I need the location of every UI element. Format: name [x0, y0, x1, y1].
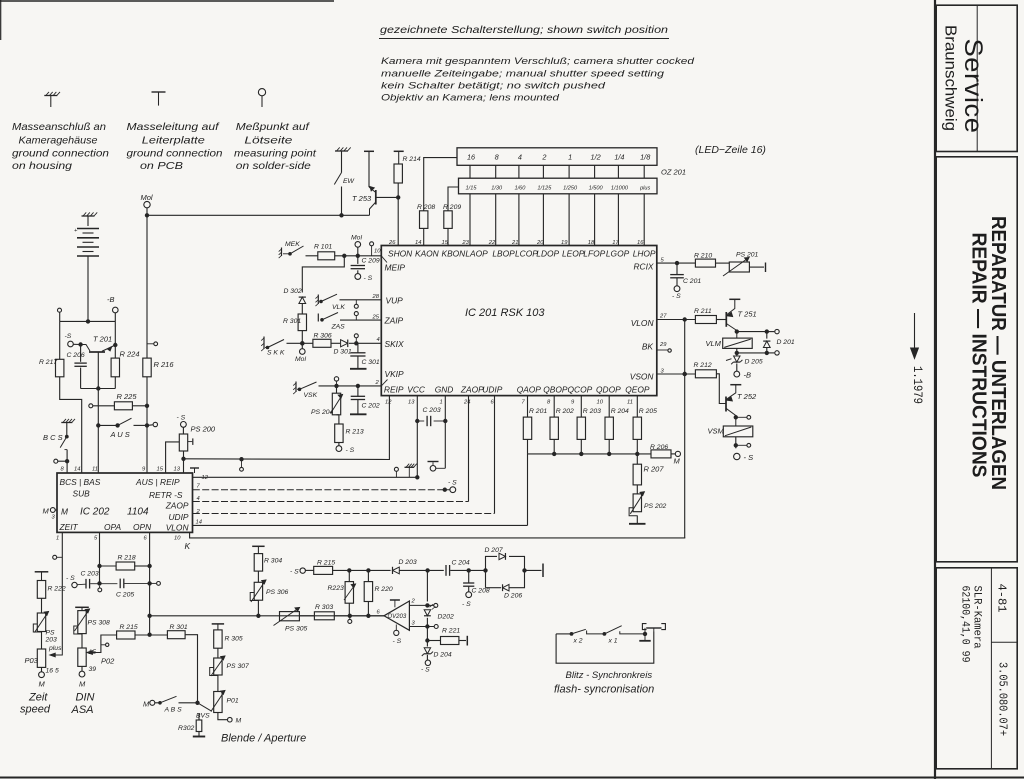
- svg-text:PS: PS: [46, 630, 56, 637]
- svg-text:- S: - S: [462, 601, 471, 608]
- row VLON pin14: [193, 524, 528, 526]
- svg-text:1: 1: [56, 536, 59, 542]
- test point R303 row: [349, 618, 351, 620]
- diode D302: [299, 297, 306, 303]
- terminal -S T201: [68, 341, 74, 347]
- terminal -S C201: [674, 286, 680, 292]
- op-amp pin3 stub: [409, 626, 434, 628]
- terminal -S row7: [450, 487, 456, 493]
- wire R215 to P02 wiper: [92, 635, 117, 653]
- svg-text:gezeichnete Schalterstellung;: gezeichnete Schalterstellung; shown swit…: [380, 24, 668, 36]
- wire PS200 left arm: [166, 442, 180, 473]
- svg-text:10: 10: [374, 249, 381, 255]
- svg-text:VSK: VSK: [304, 392, 318, 399]
- resistor R223: [348, 570, 350, 581]
- wire RCIX: [657, 262, 696, 264]
- svg-text:3.05.080.07+: 3.05.080.07+: [996, 662, 1009, 736]
- resistor R301 (A301): [298, 314, 306, 331]
- svg-text:M: M: [43, 507, 50, 516]
- svg-text:C 204: C 204: [452, 560, 470, 567]
- wire R 205 bottom: [636, 439, 638, 454]
- ground C301: [350, 368, 367, 370]
- capacitor C301: [357, 343, 359, 353]
- resistor R305: [214, 630, 222, 648]
- svg-text:6: 6: [377, 610, 381, 616]
- svg-text:VSON: VSON: [630, 372, 655, 382]
- svg-text:R 220: R 220: [375, 586, 393, 593]
- resistor R209: [444, 211, 452, 229]
- terminal -S R213: [338, 443, 340, 446]
- ground C202: [350, 413, 367, 415]
- svg-text:B C S: B C S: [43, 433, 63, 442]
- resistor R220: [367, 570, 369, 581]
- svg-text:QCOP: QCOP: [568, 385, 593, 395]
- test point VUP: [354, 304, 358, 308]
- svg-text:M: M: [674, 457, 681, 466]
- svg-text:4-81: 4-81: [995, 584, 1008, 613]
- resistor R101: [306, 255, 318, 257]
- node AUS junction: [97, 424, 100, 427]
- svg-text:2: 2: [375, 380, 380, 386]
- capacitor C203 vcc: [417, 420, 424, 422]
- svg-text:R 215: R 215: [317, 560, 335, 567]
- test point SKIX: [354, 334, 358, 338]
- wire R215-D203: [333, 569, 391, 571]
- potentiometer PS201: [729, 262, 749, 272]
- resistor R207: [636, 454, 638, 464]
- svg-text:2: 2: [411, 599, 416, 605]
- svg-text:P02: P02: [101, 657, 115, 666]
- svg-text:Masseleitung auf: Masseleitung auf: [127, 122, 220, 133]
- svg-text:D 301: D 301: [334, 349, 352, 356]
- IC U202 box IC 202 1104: [57, 473, 193, 532]
- terminal M P01: [228, 717, 233, 722]
- svg-text:1/1000: 1/1000: [611, 186, 629, 192]
- svg-text:OZ 201: OZ 201: [661, 168, 686, 177]
- svg-text:S K K: S K K: [267, 350, 285, 357]
- svg-text:LBOP: LBOP: [492, 249, 515, 259]
- wire T251 emitter node: [737, 331, 767, 333]
- wire ZAS to ZAIP: [340, 319, 381, 321]
- row K pin10: [190, 532, 686, 538]
- switch ABS: [159, 702, 162, 705]
- wire R214 to pin26: [397, 183, 399, 246]
- svg-text:C 205: C 205: [116, 592, 134, 599]
- svg-text:ground connection: ground connection: [127, 148, 223, 159]
- svg-text:R 208: R 208: [417, 204, 435, 211]
- wire D203-C204: [400, 569, 444, 571]
- svg-text:OV203: OV203: [388, 614, 407, 620]
- resistor R 202: [550, 417, 558, 439]
- svg-text:- S: - S: [177, 415, 186, 422]
- svg-text:LGOP: LGOP: [606, 249, 630, 259]
- wire QBOP column: [553, 396, 555, 418]
- svg-text:SKIX: SKIX: [385, 339, 404, 349]
- svg-text:Blitz - Synchronkreis: Blitz - Synchronkreis: [566, 670, 653, 681]
- svg-text:-B: -B: [744, 371, 752, 380]
- svg-text:Mol: Mol: [141, 193, 153, 202]
- svg-text:plus: plus: [48, 645, 62, 652]
- svg-text:Kameragehäuse: Kameragehäuse: [19, 135, 98, 146]
- wire R212 to T252: [716, 374, 726, 404]
- svg-text:27: 27: [659, 314, 667, 320]
- svg-text:PS 204: PS 204: [311, 409, 334, 416]
- wire D302 to R301: [301, 304, 303, 315]
- wire OPA column: [99, 532, 101, 583]
- svg-text:-B: -B: [107, 295, 115, 304]
- svg-text:R 222: R 222: [48, 586, 66, 593]
- resistor R302: [198, 714, 200, 721]
- svg-text:R 209: R 209: [443, 204, 461, 211]
- wire R 204 bottom: [608, 439, 610, 454]
- svg-text:AUS | REIP: AUS | REIP: [135, 477, 180, 487]
- svg-text:M: M: [61, 507, 68, 517]
- wire PS200 bottom: [183, 451, 185, 473]
- row mixer long: [150, 615, 384, 617]
- ground flash: [644, 634, 646, 640]
- svg-text:- S: - S: [290, 569, 299, 576]
- svg-text:T 251: T 251: [738, 310, 757, 319]
- svg-text:speed: speed: [20, 704, 51, 716]
- svg-text:VUP: VUP: [386, 296, 404, 306]
- svg-text:ZAIP: ZAIP: [384, 316, 404, 326]
- switch VLK: [317, 295, 319, 305]
- test point R216: [147, 343, 154, 345]
- svg-text:R 303: R 303: [315, 604, 333, 611]
- svg-text:7: 7: [197, 484, 201, 490]
- svg-text:C 203: C 203: [423, 407, 441, 414]
- wire R301 to SKIX: [301, 331, 303, 344]
- terminal BCS circle: [54, 459, 58, 463]
- svg-text:4: 4: [377, 337, 380, 343]
- wire VSON: [657, 373, 696, 375]
- potentiometer PS200: [179, 434, 187, 451]
- wire R211 to T251: [716, 319, 726, 321]
- LED box upper: [457, 148, 657, 166]
- svg-text:- S: - S: [66, 575, 75, 582]
- switch AUS: [116, 424, 119, 427]
- svg-text:PS 308: PS 308: [88, 620, 111, 627]
- terminal -S C208: [466, 592, 472, 598]
- svg-text:T 253: T 253: [352, 194, 372, 203]
- wire Mol column: [146, 215, 148, 358]
- svg-text:K: K: [185, 541, 191, 551]
- svg-text:R 207: R 207: [644, 465, 665, 474]
- svg-text:on housing: on housing: [12, 161, 72, 172]
- svg-text:C 301: C 301: [362, 359, 380, 366]
- svg-text:A B S: A B S: [164, 707, 183, 714]
- svg-text:RCIX: RCIX: [633, 262, 653, 272]
- svg-text:C 202: C 202: [362, 403, 380, 410]
- svg-text:R 213: R 213: [346, 429, 364, 436]
- terminal -S C209: [355, 274, 361, 280]
- svg-text:VCC: VCC: [407, 385, 426, 395]
- svg-text:15: 15: [157, 467, 164, 473]
- svg-text:ASA: ASA: [71, 704, 94, 716]
- svg-text:10: 10: [174, 536, 181, 542]
- svg-text:ZEIT: ZEIT: [59, 522, 79, 532]
- potentiometer PS203: [41, 598, 43, 613]
- svg-text:Meßpunkt auf: Meßpunkt auf: [236, 122, 310, 133]
- terminal circle emitter: [767, 331, 775, 333]
- wire R216 down: [146, 377, 148, 473]
- diode D206: [503, 584, 509, 590]
- resistor R210: [695, 259, 715, 267]
- svg-text:12: 12: [385, 400, 392, 406]
- svg-text:62100,41,0 99: 62100,41,0 99: [959, 586, 971, 663]
- svg-text:11: 11: [92, 467, 98, 473]
- svg-text:ZAOP: ZAOP: [460, 385, 484, 395]
- svg-text:Mol: Mol: [295, 356, 306, 363]
- potentiometer P01: [214, 692, 222, 713]
- wire VLON-VSON vertical: [684, 320, 686, 538]
- svg-text:QAOP: QAOP: [517, 385, 542, 395]
- svg-text:D 205: D 205: [745, 359, 763, 366]
- svg-text:LEOP: LEOP: [562, 249, 585, 259]
- svg-text:LAOP: LAOP: [465, 249, 488, 259]
- svg-text:R223: R223: [328, 585, 344, 592]
- svg-text:29: 29: [659, 342, 667, 348]
- svg-text:R 306: R 306: [314, 333, 332, 340]
- terminal M R206: [671, 453, 676, 455]
- svg-text:(LED−Zeile 16): (LED−Zeile 16): [695, 144, 766, 156]
- terminal pin3: [434, 625, 438, 629]
- svg-text:R 301: R 301: [283, 318, 301, 325]
- svg-text:SUB: SUB: [73, 489, 91, 499]
- svg-text:T 252: T 252: [737, 392, 757, 401]
- svg-text:M: M: [236, 718, 242, 725]
- capacitor C202: [356, 384, 359, 387]
- power bar T251: [729, 298, 740, 300]
- svg-text:4: 4: [518, 153, 522, 162]
- wire QEOP column: [636, 396, 638, 418]
- node BVS: [196, 701, 199, 704]
- switch x2: [572, 629, 586, 634]
- resistor R213: [337, 414, 339, 416]
- svg-text:1/60: 1/60: [514, 186, 526, 192]
- svg-text:ground connection: ground connection: [12, 148, 109, 159]
- resistor R212: [695, 370, 716, 378]
- relay VLM: [723, 338, 753, 348]
- terminal -B D205: [736, 364, 738, 372]
- diode D301: [341, 340, 348, 347]
- svg-text:1/8: 1/8: [640, 153, 651, 162]
- svg-text:C 203: C 203: [81, 571, 99, 578]
- svg-text:D 204: D 204: [434, 652, 452, 659]
- node rowK-VSON: [683, 372, 686, 375]
- svg-text:- S: - S: [672, 293, 681, 300]
- svg-text:5: 5: [94, 536, 98, 542]
- wire PS307 to P01: [217, 675, 219, 692]
- op-amp pin2 stub: [409, 604, 433, 606]
- svg-text:Leiterplatte: Leiterplatte: [142, 135, 205, 146]
- resistor R306: [313, 339, 331, 347]
- potentiometer PS307: [217, 648, 219, 658]
- node D302 branch: [343, 254, 346, 257]
- terminal circle left rail: [58, 308, 62, 312]
- switch BVS: [198, 703, 212, 712]
- wire REIP rowA: [184, 396, 390, 460]
- resistor R221: [427, 640, 440, 642]
- wire Mol rail: [147, 214, 370, 216]
- wire R210 to PS201: [716, 262, 730, 264]
- wire R209 top: [448, 187, 459, 211]
- ground battery: [82, 215, 95, 217]
- stub VSM bottom: [735, 437, 737, 449]
- wire R101 to MEIP: [335, 255, 382, 257]
- power bar R304: [252, 545, 264, 547]
- svg-text:P01: P01: [227, 698, 239, 705]
- wire -B down: [114, 321, 116, 345]
- capacitor C208: [468, 570, 470, 582]
- potentiometer PS308: [78, 611, 86, 634]
- test point row12 c: [394, 467, 398, 471]
- svg-text:R 224: R 224: [120, 350, 140, 359]
- svg-text:LHOP: LHOP: [633, 249, 656, 259]
- svg-text:2: 2: [541, 153, 546, 162]
- svg-text:- S: - S: [346, 447, 355, 454]
- resistor R224: [114, 345, 116, 358]
- test point VKIP: [334, 377, 338, 381]
- test point ZAIP: [354, 312, 358, 316]
- legend ground-housing symbol: [44, 95, 57, 97]
- svg-text:R 305: R 305: [225, 636, 243, 643]
- wire R225 right: [132, 405, 147, 407]
- svg-text:1/2: 1/2: [591, 153, 601, 162]
- svg-text:REIP: REIP: [384, 385, 404, 395]
- wire PS201 end: [749, 266, 764, 268]
- svg-text:9: 9: [571, 400, 575, 406]
- svg-text:25: 25: [372, 314, 380, 320]
- terminal M P02: [81, 666, 83, 671]
- svg-text:KAON: KAON: [415, 249, 440, 259]
- transistor T201: [89, 351, 105, 353]
- test point ZEIT: [53, 555, 57, 559]
- wire PS306 bottom: [257, 600, 259, 616]
- svg-text:ZAS: ZAS: [331, 324, 346, 331]
- svg-text:Zeit: Zeit: [28, 692, 48, 704]
- battery B201: [77, 228, 99, 230]
- wire D302 branch: [302, 256, 344, 293]
- row ZAOP pin4: [193, 501, 469, 503]
- wire VCC column: [416, 396, 418, 478]
- svg-text:9: 9: [142, 467, 146, 473]
- wire QAOP column: [527, 396, 529, 418]
- wire D301 to SKIX: [349, 342, 381, 344]
- capacitor C205: [100, 583, 118, 585]
- potentiometer P02: [81, 634, 83, 648]
- svg-text:Mol: Mol: [351, 235, 362, 242]
- svg-text:QDOP: QDOP: [596, 385, 621, 395]
- svg-text:Masseanschluß an: Masseanschluß an: [12, 122, 106, 133]
- flash sync loop: [556, 632, 654, 664]
- svg-text:R 210: R 210: [694, 253, 712, 260]
- svg-text:- S: - S: [393, 638, 402, 645]
- svg-text:VLK: VLK: [332, 304, 345, 311]
- svg-text:8: 8: [61, 467, 65, 473]
- svg-text:R 204: R 204: [611, 408, 629, 415]
- op-amp power bar: [390, 599, 400, 601]
- svg-text:kein Schalter betätigt; no swi: kein Schalter betätigt; no switch pushed: [381, 81, 606, 92]
- diode D207 loop box: [486, 556, 498, 587]
- wire ZAOP column: [468, 396, 470, 502]
- svg-text:R 221: R 221: [442, 628, 460, 635]
- svg-text:D202: D202: [438, 614, 454, 621]
- svg-text:C 208: C 208: [472, 588, 490, 595]
- diode D207: [499, 553, 505, 559]
- terminal -S D204: [426, 655, 428, 660]
- svg-text:VLON: VLON: [166, 523, 190, 533]
- op-amp OV203: [384, 601, 409, 630]
- switch x1: [603, 633, 606, 636]
- switch ZAS: [317, 314, 319, 322]
- svg-text:13: 13: [174, 467, 181, 473]
- terminal AUS right: [147, 424, 153, 427]
- svg-text:C 206: C 206: [67, 352, 85, 359]
- resistor R303: [314, 612, 334, 620]
- wire QAOP to rowF: [527, 454, 529, 526]
- svg-text:- S: - S: [364, 275, 373, 282]
- svg-text:-S: -S: [65, 333, 72, 340]
- svg-text:R 217: R 217: [39, 359, 57, 366]
- svg-text:A U S: A U S: [110, 430, 130, 439]
- wire emitter to pin11: [97, 389, 99, 426]
- svg-text:R 215: R 215: [120, 624, 138, 631]
- svg-text:on solder-side: on solder-side: [236, 161, 311, 172]
- row REIP pin12: [193, 476, 417, 478]
- wire R209 bottom: [447, 228, 449, 245]
- svg-text:R 101: R 101: [314, 244, 332, 251]
- title block frame border: [934, 0, 936, 779]
- svg-text:R 225: R 225: [117, 392, 138, 401]
- terminal -S VSM: [734, 453, 740, 459]
- transistor T253: [368, 151, 370, 187]
- svg-text:- S: - S: [744, 453, 754, 462]
- svg-text:D 206: D 206: [504, 593, 522, 600]
- terminal R225 left: [89, 404, 93, 408]
- wire R208 top: [424, 158, 457, 211]
- svg-text:T 201: T 201: [93, 335, 112, 344]
- svg-text:x 1: x 1: [608, 638, 618, 645]
- LED column wires: [469, 165, 471, 178]
- svg-text:BCS | BAS: BCS | BAS: [60, 477, 101, 487]
- svg-text:R 203: R 203: [583, 408, 601, 415]
- LED box lower: [459, 178, 658, 194]
- resistor R222: [37, 581, 45, 599]
- svg-text:39: 39: [89, 666, 97, 673]
- op-amp -S: [395, 625, 397, 631]
- stub T252 emitter: [734, 416, 737, 419]
- svg-text:R 211: R 211: [694, 308, 712, 315]
- svg-text:BVS: BVS: [196, 713, 210, 720]
- svg-text:1/15: 1/15: [466, 186, 478, 192]
- switch SKK: [263, 337, 265, 350]
- svg-text:11: 11: [627, 400, 633, 406]
- title block number divider h: [991, 641, 1017, 643]
- svg-text:BK: BK: [642, 342, 654, 352]
- wire D207 end bar: [523, 569, 526, 572]
- svg-text:GND: GND: [435, 385, 454, 395]
- capacitor C209: [357, 256, 359, 264]
- svg-text:1: 1: [568, 153, 572, 162]
- wire GND column: [444, 396, 446, 469]
- svg-text:R302: R302: [178, 725, 194, 732]
- wire R301 right down: [185, 635, 197, 703]
- svg-text:3: 3: [412, 621, 416, 627]
- resistor R225: [114, 402, 132, 410]
- switch BCS: [65, 435, 68, 438]
- terminal circle VLM bottom: [767, 352, 775, 354]
